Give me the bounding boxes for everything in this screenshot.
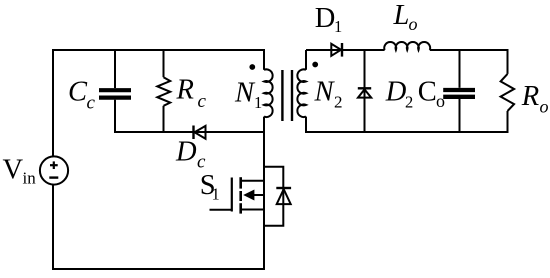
svg-text:o: o xyxy=(436,91,445,111)
wire: D2 branch xyxy=(364,50,366,133)
wire: N2 top lead xyxy=(305,50,307,70)
svg-text:R: R xyxy=(521,81,539,112)
wire: clamp bottom rail xyxy=(115,131,264,133)
diode D2 xyxy=(358,88,371,97)
label D1 xyxy=(315,3,342,36)
inductor Lo xyxy=(384,42,430,50)
wire: left rail lower segment xyxy=(52,184,54,270)
svg-text:V: V xyxy=(3,155,24,186)
diode D1 xyxy=(331,43,342,57)
svg-text:2: 2 xyxy=(405,92,413,111)
capacitor Cc xyxy=(99,49,131,133)
wire: primary right rail (below N1 to bottom) xyxy=(263,117,265,270)
transformer core xyxy=(282,70,292,121)
wire: secondary top rail (Lo to Ro) xyxy=(430,49,509,51)
svg-text:1: 1 xyxy=(212,184,220,203)
label S1 xyxy=(200,170,220,203)
svg-text:D: D xyxy=(385,77,407,108)
polarity dot N1 xyxy=(249,64,255,70)
diode Dc xyxy=(194,126,206,140)
capacitor Co xyxy=(443,50,475,133)
svg-text:D: D xyxy=(175,137,197,168)
svg-text:N: N xyxy=(314,77,336,108)
wire: primary top rail xyxy=(52,49,265,51)
svg-text:o: o xyxy=(540,97,549,117)
label Dc xyxy=(175,137,206,173)
svg-text:C: C xyxy=(418,77,437,108)
label Rc xyxy=(176,75,207,113)
transformer winding N1 xyxy=(264,69,273,117)
label N2 xyxy=(314,77,343,112)
svg-text:L: L xyxy=(393,0,410,31)
wire: left rail upper segment xyxy=(52,49,54,157)
svg-text:C: C xyxy=(68,76,88,107)
wire: primary bottom rail xyxy=(52,268,265,270)
svg-text:1: 1 xyxy=(334,17,342,36)
label Ro xyxy=(521,81,549,117)
transistor S1 (MOSFET) xyxy=(210,177,265,213)
svg-text:2: 2 xyxy=(334,92,343,111)
resistor Ro xyxy=(501,49,514,133)
transformer winding N2 xyxy=(297,69,306,117)
wire: primary right rail (transformer top lead) xyxy=(263,49,265,70)
source Vin xyxy=(40,156,68,184)
label Lo xyxy=(393,0,418,34)
svg-text:c: c xyxy=(87,93,96,114)
wire: secondary bottom rail xyxy=(306,131,509,133)
label N1 xyxy=(234,77,262,112)
wire: N2 bottom lead xyxy=(305,117,307,133)
label D2 xyxy=(385,77,413,112)
svg-text:c: c xyxy=(198,91,207,112)
svg-text:D: D xyxy=(315,3,336,34)
body diode of S1 xyxy=(264,167,291,226)
label Co xyxy=(418,77,445,112)
wire: secondary top rail (N2 to Lo) xyxy=(306,49,385,51)
label Cc xyxy=(68,76,96,113)
svg-text:o: o xyxy=(409,14,418,34)
resistor Rc xyxy=(157,49,170,133)
svg-text:N: N xyxy=(234,77,256,108)
svg-text:in: in xyxy=(23,169,37,188)
label Vin xyxy=(3,155,37,188)
svg-text:R: R xyxy=(176,75,194,106)
polarity dot N2 xyxy=(312,62,318,68)
svg-text:1: 1 xyxy=(254,93,262,112)
